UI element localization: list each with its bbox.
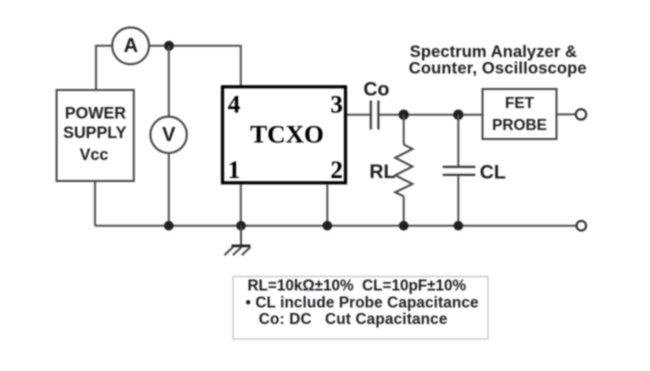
node: junction dot bus voltmeter — [164, 221, 174, 231]
svg-text:2: 2 — [330, 157, 343, 184]
capacitor Co — [363, 79, 389, 130]
node: junction dot CL top — [453, 110, 463, 120]
svg-text:CL: CL — [480, 162, 506, 184]
node: junction dot bus CL — [454, 221, 464, 231]
node: junction dot RL top — [399, 110, 409, 120]
wire FET probe to output terminal — [557, 113, 576, 115]
capacitor CL — [443, 115, 506, 226]
svg-text:PROBE: PROBE — [492, 117, 547, 134]
svg-text:V: V — [162, 124, 176, 146]
svg-text:TCXO: TCXO — [250, 119, 324, 148]
output terminal top — [576, 109, 586, 119]
svg-text:RL=10kΩ±10% CL=10pF±10%: RL=10kΩ±10% CL=10pF±10% — [248, 278, 467, 295]
wire TCXO pin 1 to ground bus — [240, 184, 242, 226]
wire power supply bottom to ground bus — [94, 181, 96, 226]
resistor RL — [369, 115, 412, 226]
ground bus wire — [95, 225, 577, 227]
wire Co to FET probe — [379, 114, 483, 116]
FET probe box — [483, 89, 557, 139]
node: junction dot Vcc/ammeter — [164, 41, 174, 51]
svg-text:4: 4 — [228, 92, 241, 119]
notes box — [233, 277, 488, 340]
wire from power supply top to ammeter — [96, 46, 112, 90]
svg-text:RL: RL — [369, 161, 395, 183]
output terminal bottom — [577, 221, 587, 231]
label: Spectrum Analyzer & Counter, Oscilloscope — [409, 43, 587, 78]
svg-text:FET: FET — [505, 95, 535, 112]
power supply box PS1 — [57, 90, 134, 181]
node: junction dot bus pin2 — [323, 221, 333, 231]
svg-text:Counter, Oscilloscope: Counter, Oscilloscope — [409, 60, 587, 78]
svg-text:A: A — [124, 35, 138, 57]
svg-text:• CL include Probe Capacitance: • CL include Probe Capacitance — [246, 295, 479, 312]
wire TCXO pin 3 to capacitor Co — [347, 114, 370, 116]
node: junction dot bus RL — [399, 221, 409, 231]
wire TCXO pin 2 to ground bus — [326, 184, 328, 226]
ground — [224, 226, 250, 255]
wire from ammeter to TCXO pin 4 — [149, 46, 241, 86]
voltmeter V1 — [150, 117, 186, 153]
svg-text:Vcc: Vcc — [80, 146, 109, 164]
wire voltmeter bottom to ground bus — [168, 153, 170, 226]
svg-text:POWER: POWER — [65, 105, 126, 123]
svg-text:3: 3 — [330, 92, 343, 119]
TCXO U1 — [223, 87, 346, 183]
svg-text:Co: Co — [363, 79, 389, 101]
ammeter A1 — [112, 27, 149, 64]
svg-text:1: 1 — [228, 157, 241, 184]
svg-text:Spectrum Analyzer &: Spectrum Analyzer & — [410, 43, 577, 61]
svg-text:SUPPLY: SUPPLY — [63, 124, 126, 142]
wire junction to voltmeter top — [168, 46, 170, 117]
svg-text:Co: DC Cut Capacitance: Co: DC Cut Capacitance — [259, 311, 448, 328]
node: junction dot bus ground — [236, 221, 246, 231]
